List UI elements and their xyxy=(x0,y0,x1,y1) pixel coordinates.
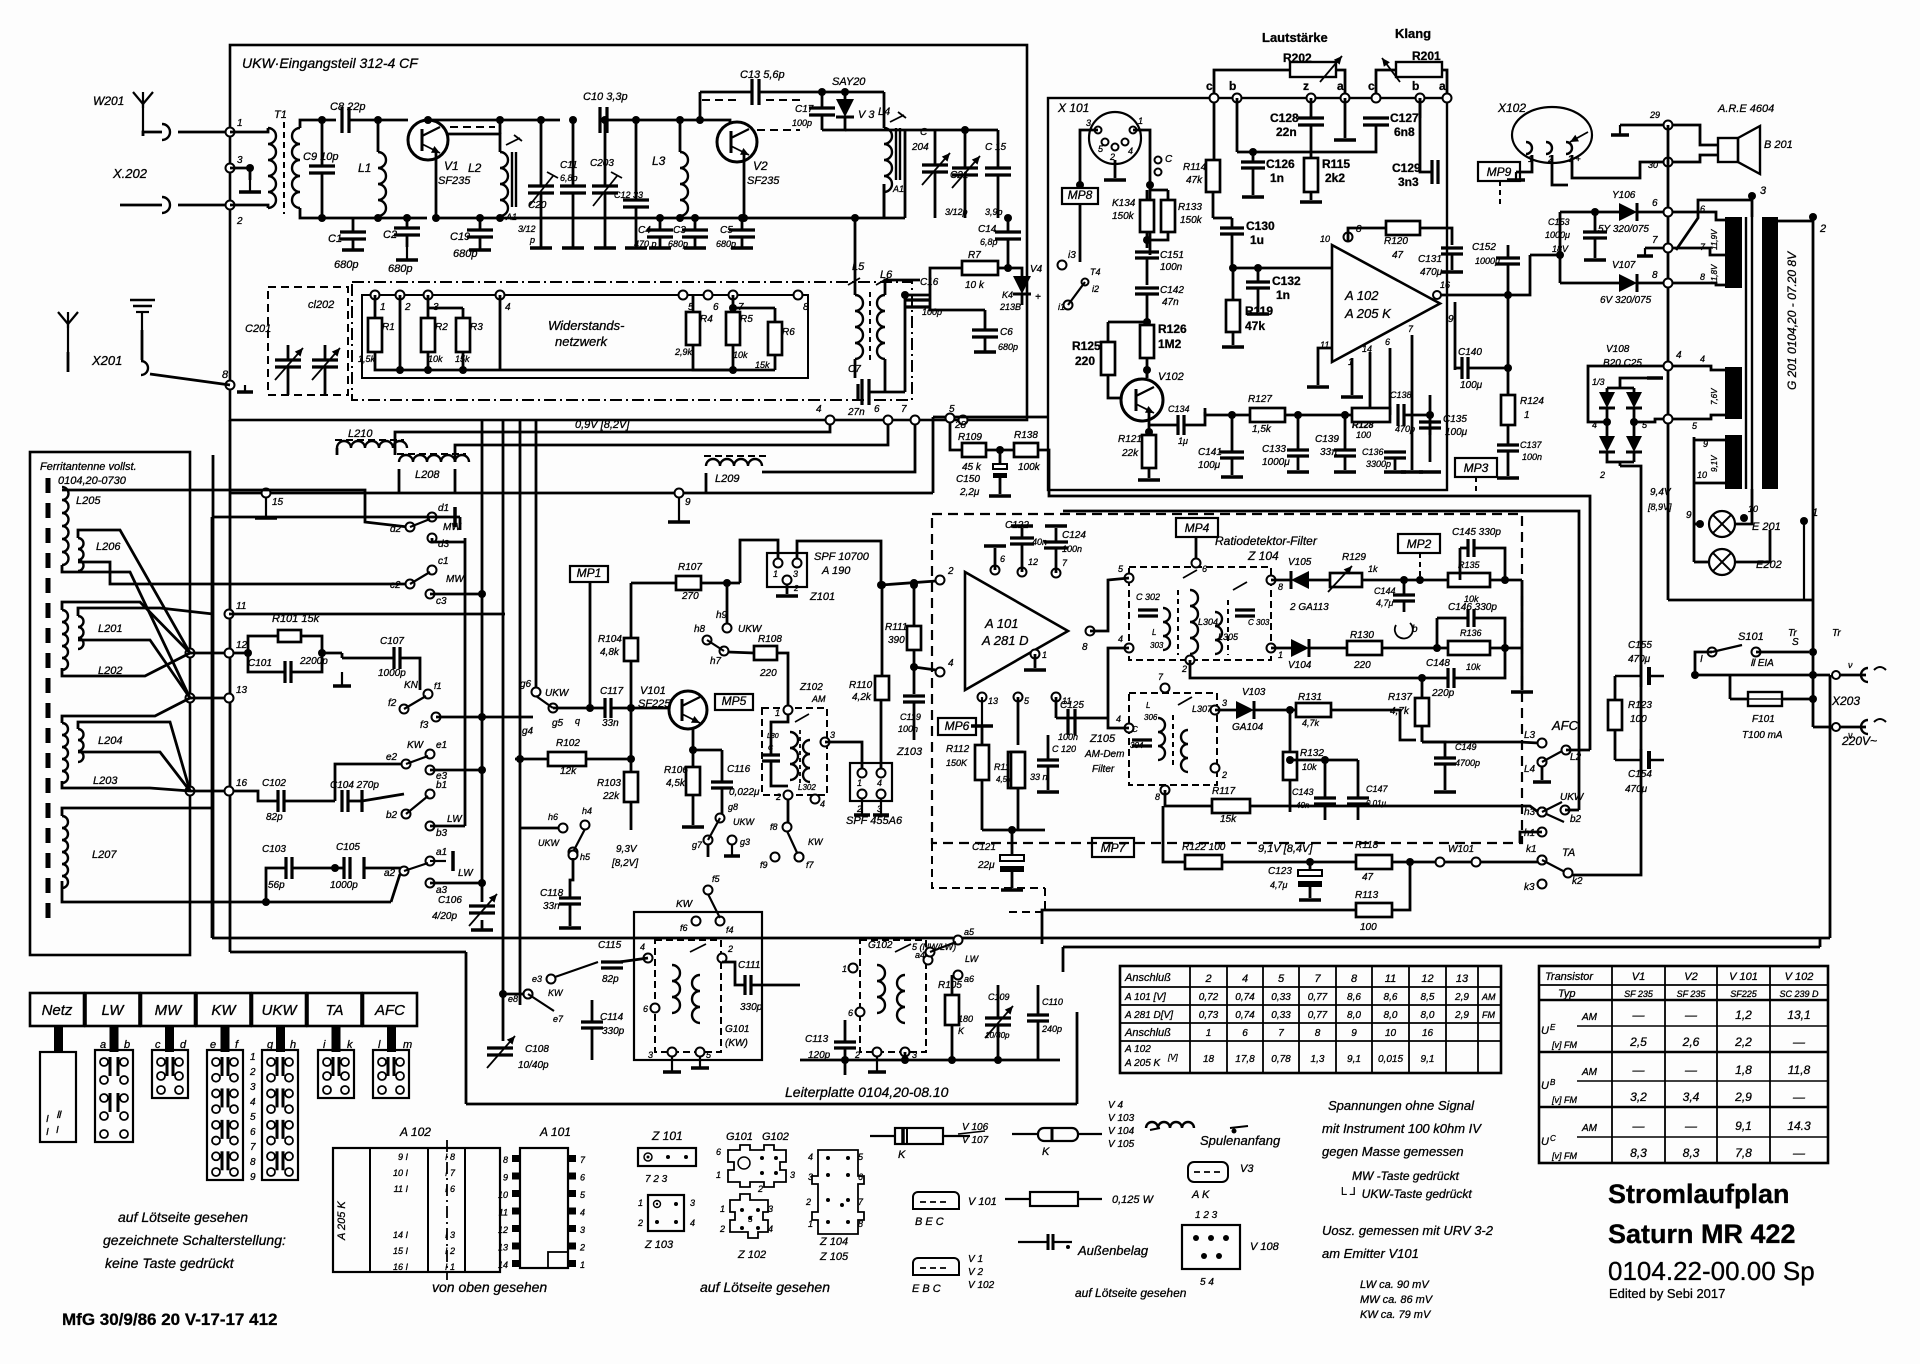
wire xyxy=(1007,239,1010,258)
svg-text:h1: h1 xyxy=(1524,828,1535,839)
wire xyxy=(1411,335,1414,470)
svg-text:f9: f9 xyxy=(760,860,768,870)
svg-text:150k: 150k xyxy=(1180,215,1203,226)
svg-text:Anschluß: Anschluß xyxy=(1124,972,1171,984)
lbl a5 xyxy=(964,927,975,937)
label C146 330p xyxy=(1448,602,1497,613)
resistor R102 xyxy=(548,752,586,766)
svg-text:3,9p: 3,9p xyxy=(985,207,1003,217)
coil L301 xyxy=(790,732,798,780)
junction xyxy=(586,704,594,712)
value 240p xyxy=(1041,1024,1062,1034)
value 680p C19 xyxy=(453,248,477,260)
svg-text:15: 15 xyxy=(272,497,284,508)
label GA104 xyxy=(1232,722,1264,733)
junction xyxy=(1591,208,1599,216)
capacitor C141 xyxy=(1220,452,1244,458)
capacitor C145 xyxy=(1468,539,1474,557)
resistor R137 xyxy=(1415,698,1429,726)
svg-text:a: a xyxy=(1439,79,1446,93)
wire xyxy=(1694,561,1709,564)
wire xyxy=(1421,726,1424,742)
wire xyxy=(1146,372,1149,378)
svg-text:I: I xyxy=(1700,654,1703,665)
svg-text:a4: a4 xyxy=(915,950,925,960)
switch b2 xyxy=(402,796,429,819)
value 10k R135 xyxy=(1464,594,1479,604)
svg-text:L205: L205 xyxy=(76,495,101,507)
pin 13 xyxy=(236,685,248,696)
label V4 xyxy=(1030,264,1043,275)
junction xyxy=(878,581,886,589)
label V108 xyxy=(1606,344,1630,355)
resistor R113 xyxy=(1356,903,1392,917)
wire xyxy=(1309,647,1347,650)
ground R119 xyxy=(1222,345,1244,349)
svg-text:9,1V: 9,1V xyxy=(1710,455,1719,472)
label V105 xyxy=(1288,557,1312,568)
svg-text:g3: g3 xyxy=(740,837,750,847)
resistor R115 xyxy=(1304,158,1318,192)
svg-text:0,74: 0,74 xyxy=(1235,992,1255,1003)
value 4.8k xyxy=(600,647,620,658)
value 180k xyxy=(958,1014,973,1024)
z103 pin2 xyxy=(637,1218,643,1228)
a101 rpin3 xyxy=(568,1225,576,1232)
svg-text:1000μ: 1000μ xyxy=(1545,230,1570,240)
Z102 dashed box xyxy=(762,708,827,795)
svg-text:AFC: AFC xyxy=(1551,718,1579,733)
svg-text:C139: C139 xyxy=(1315,434,1339,445)
value 1u C134 xyxy=(1178,436,1188,446)
wire xyxy=(391,874,400,902)
node z103-1 xyxy=(858,769,867,778)
svg-text:2,6: 2,6 xyxy=(1682,1035,1700,1049)
wire xyxy=(1594,212,1597,232)
a101 lpin9 xyxy=(512,1173,520,1180)
svg-text:L: L xyxy=(1152,628,1156,637)
svg-text:3n3: 3n3 xyxy=(1398,175,1419,189)
wire xyxy=(722,962,745,985)
value 1000u C133 xyxy=(1262,457,1290,468)
v108 pins123 xyxy=(1195,1210,1218,1221)
label C130 xyxy=(1246,219,1275,233)
svg-text:1n: 1n xyxy=(1276,288,1290,302)
wire xyxy=(1645,247,1664,250)
label W201 xyxy=(93,94,124,108)
svg-text:1,5k: 1,5k xyxy=(358,354,376,364)
trim G102 xyxy=(895,944,911,952)
svg-text:auf Lötseite gesehen: auf Lötseite gesehen xyxy=(1075,1286,1187,1300)
note mw xyxy=(1360,1294,1434,1306)
label C9 10p xyxy=(303,151,338,163)
svg-text:f8: f8 xyxy=(770,822,778,832)
capacitor C2 xyxy=(394,228,420,235)
value 15k R3 xyxy=(455,354,470,364)
svg-text:2: 2 xyxy=(1204,973,1211,985)
z102 pin5 xyxy=(748,1215,753,1224)
Z102 package xyxy=(730,1194,768,1238)
wire xyxy=(1730,698,1748,701)
z101 pin3 xyxy=(793,569,798,579)
junction xyxy=(1809,213,1817,221)
node t4 xyxy=(1664,362,1673,371)
anschluss hdr 6 xyxy=(1421,973,1433,985)
capacitor C102 xyxy=(278,790,284,812)
resistor R6 xyxy=(768,322,782,355)
svg-text:g4: g4 xyxy=(522,726,534,737)
svg-text:5: 5 xyxy=(748,1215,753,1224)
connector X203b xyxy=(1861,720,1868,734)
svg-text:C101: C101 xyxy=(248,658,272,669)
label L207 xyxy=(92,849,117,861)
node a101-4 xyxy=(936,668,945,677)
svg-text:6: 6 xyxy=(1385,337,1390,347)
label C13 5,6p xyxy=(740,69,785,81)
svg-text:6: 6 xyxy=(1000,554,1005,564)
wire xyxy=(1560,211,1619,214)
value 33n C118 xyxy=(543,901,560,912)
connector arc X202-1 xyxy=(162,124,170,140)
g101 pin3 xyxy=(648,1050,653,1060)
value 1000u C152 xyxy=(1475,256,1500,266)
svg-text:SC 239 D: SC 239 D xyxy=(1779,989,1819,999)
node g102-2 xyxy=(873,1048,882,1057)
svg-text:4: 4 xyxy=(690,1218,695,1228)
a102 pin10 xyxy=(1320,234,1330,244)
junction xyxy=(374,214,382,222)
capacitor C126 xyxy=(1241,162,1265,168)
wire xyxy=(984,310,987,330)
svg-text:V101: V101 xyxy=(640,685,666,697)
t lbl 5 xyxy=(1692,421,1698,431)
legend V106/107b xyxy=(962,1135,989,1146)
node g101-3 xyxy=(668,1048,677,1057)
wire xyxy=(427,352,430,370)
svg-text:I: I xyxy=(46,1114,49,1125)
a101 val 7 xyxy=(1454,992,1469,1003)
svg-text:3/12: 3/12 xyxy=(518,224,536,234)
wire xyxy=(1565,809,1579,812)
value 2.9k xyxy=(674,347,693,357)
tt AM1 xyxy=(1581,1012,1598,1023)
UKW-Eingangsteil enclosure box xyxy=(230,45,1027,420)
wire xyxy=(885,280,920,295)
svg-text:C11: C11 xyxy=(560,160,578,171)
svg-text:b: b xyxy=(1412,79,1419,93)
wire xyxy=(321,173,324,218)
svg-text:R2: R2 xyxy=(435,322,448,333)
wire xyxy=(1459,548,1462,580)
wire xyxy=(1034,654,1037,668)
legend diode K1 xyxy=(870,1128,970,1144)
value 680p C6 xyxy=(998,342,1018,352)
wire xyxy=(1455,648,1505,678)
svg-text:I 8: I 8 xyxy=(445,1152,455,1162)
wire xyxy=(570,858,573,898)
svg-text:V2: V2 xyxy=(753,159,768,173)
svg-text:C131: C131 xyxy=(1418,254,1442,265)
wire xyxy=(1252,168,1255,195)
label C304b xyxy=(1130,741,1144,750)
value 33n C120 xyxy=(1030,772,1048,782)
svg-text:Filter: Filter xyxy=(1092,764,1115,775)
UKW connector block xyxy=(262,1050,298,1180)
connector arc X201 xyxy=(141,361,148,375)
svg-text:L307: L307 xyxy=(1192,704,1213,714)
value 27n xyxy=(847,407,865,418)
node W101b xyxy=(1472,858,1481,867)
resistor R110 xyxy=(875,676,889,700)
label AFC xyxy=(1551,718,1579,733)
z104 pin6 xyxy=(858,1172,863,1182)
label L301 xyxy=(767,733,779,740)
tt data 1101 1 xyxy=(1683,1090,1700,1104)
label C125 xyxy=(1060,700,1084,711)
node g6 xyxy=(532,688,541,697)
svg-text:390: 390 xyxy=(888,635,905,646)
note mw-taste xyxy=(1352,1169,1460,1183)
wire xyxy=(1063,511,1579,810)
button stub UKW xyxy=(276,1026,285,1052)
wire xyxy=(999,478,1002,494)
wire xyxy=(430,593,482,596)
resistor R131 xyxy=(1296,703,1331,717)
ground R106 xyxy=(682,825,704,829)
label K4 xyxy=(1002,290,1013,300)
wire xyxy=(1614,676,1617,700)
value 150k xyxy=(946,758,968,768)
svg-text:AM: AM xyxy=(811,694,826,704)
svg-text:1μ: 1μ xyxy=(1178,436,1188,446)
lbl g4 xyxy=(522,726,534,737)
label L4 xyxy=(878,106,890,118)
svg-text:10k: 10k xyxy=(733,350,748,360)
svg-text:C135: C135 xyxy=(1443,414,1467,425)
transformer secondary bar 9.1V xyxy=(1725,435,1742,489)
core L5L6 xyxy=(869,292,871,362)
svg-text:0,33: 0,33 xyxy=(1271,992,1291,1003)
digit 8 xyxy=(250,1157,256,1168)
wire xyxy=(1436,618,1439,648)
ground a102-1 xyxy=(1341,395,1363,399)
pin netz 8 xyxy=(803,302,809,313)
anschluss hdr 5 xyxy=(1385,973,1396,985)
wire xyxy=(1454,302,1457,370)
tt rowsub U xyxy=(1551,1040,1577,1050)
svg-text:6: 6 xyxy=(250,1127,256,1138)
svg-text:R127: R127 xyxy=(1248,394,1272,405)
label Z105 pkg xyxy=(819,1251,849,1263)
svg-text:B E C: B E C xyxy=(915,1216,944,1228)
label C147 xyxy=(1366,784,1389,794)
label A102 xyxy=(1344,288,1379,303)
svg-text:2,2μ: 2,2μ xyxy=(959,487,980,498)
X101 connector xyxy=(1089,112,1141,164)
wire xyxy=(364,868,404,871)
wire xyxy=(553,707,605,710)
wire xyxy=(707,844,710,857)
lbl c3 xyxy=(436,596,447,607)
title saturn xyxy=(1608,1219,1796,1249)
trim z102 xyxy=(795,714,809,722)
node netz 4 xyxy=(496,291,505,300)
svg-text:8,6: 8,6 xyxy=(1347,992,1361,1003)
wire xyxy=(1421,726,1424,742)
label Filter xyxy=(1092,764,1115,775)
a101 rpin5 xyxy=(568,1190,576,1197)
node 28 xyxy=(946,414,955,423)
svg-text:1: 1 xyxy=(1524,410,1530,421)
node a102-16 xyxy=(1433,291,1441,299)
a102pkg l9 xyxy=(398,1152,409,1162)
svg-text:4,7k: 4,7k xyxy=(1302,718,1320,728)
ground 15 xyxy=(255,497,277,518)
svg-text:15 I: 15 I xyxy=(393,1246,409,1256)
svg-text:SAY20: SAY20 xyxy=(832,76,866,88)
lbl h3 xyxy=(1524,807,1536,818)
svg-text:8,6: 8,6 xyxy=(1384,992,1398,1003)
ground t7 xyxy=(1637,248,1653,256)
G101 package xyxy=(728,1145,786,1187)
label C12 33 xyxy=(614,190,643,200)
bus node c1214 xyxy=(1210,94,1219,103)
wire xyxy=(394,448,397,455)
label A101 xyxy=(984,616,1019,631)
button label Netz xyxy=(42,1002,73,1019)
tt hdr V 102 xyxy=(1785,971,1814,983)
capacitor C124 xyxy=(1044,542,1068,548)
ground audio 1345 xyxy=(1334,470,1356,474)
wire xyxy=(1351,358,1354,395)
node L4 xyxy=(1538,758,1547,767)
cap Cl202 var xyxy=(312,348,340,380)
lbl b3 xyxy=(436,828,448,839)
svg-text:C127: C127 xyxy=(1390,111,1419,125)
legend coil xyxy=(1146,1122,1248,1134)
wire xyxy=(430,825,465,828)
legend V102lbl xyxy=(968,1280,995,1291)
inductor L207 xyxy=(62,816,68,888)
wire xyxy=(62,808,213,816)
coil L302 xyxy=(803,740,810,782)
value 680p xyxy=(334,259,358,271)
note lw xyxy=(1360,1279,1430,1291)
svg-text:c: c xyxy=(1206,79,1213,93)
value 470p C138 xyxy=(1395,424,1415,434)
wire xyxy=(733,307,775,310)
label V102 xyxy=(1158,371,1184,383)
lbl c1 xyxy=(438,556,449,567)
wire xyxy=(612,707,669,710)
bridge diode 3 xyxy=(1599,436,1615,452)
node 5 ukw-bottom xyxy=(959,416,968,425)
a101 lpin14 xyxy=(512,1260,520,1267)
svg-text:3: 3 xyxy=(808,1172,813,1182)
wire xyxy=(520,827,559,830)
junction xyxy=(331,864,339,872)
label R128 xyxy=(1352,420,1374,430)
node a101-2 xyxy=(936,576,945,585)
value 330p C114 xyxy=(602,1026,625,1037)
label 1/3 xyxy=(1592,377,1605,387)
svg-text:K: K xyxy=(1042,1146,1050,1158)
ground C118 xyxy=(559,926,581,930)
svg-text:E: E xyxy=(1550,1023,1556,1032)
resistor R2 xyxy=(421,318,435,352)
svg-text:33π: 33π xyxy=(1320,447,1338,458)
svg-text:GA104: GA104 xyxy=(1232,722,1264,733)
svg-text:1,5k: 1,5k xyxy=(1252,424,1272,435)
note kw xyxy=(1360,1309,1432,1321)
svg-text:C128: C128 xyxy=(1270,111,1299,125)
legend V104 xyxy=(1108,1126,1135,1137)
wire xyxy=(913,583,916,626)
node x101C2 xyxy=(1155,169,1162,176)
capacitor C111 xyxy=(745,975,751,995)
label C145 330p xyxy=(1452,527,1501,538)
node i3 xyxy=(1058,261,1067,270)
svg-text:4: 4 xyxy=(505,302,511,313)
resistor R111 xyxy=(907,626,921,650)
note uosz2 xyxy=(1322,1246,1419,1261)
core z104b xyxy=(1227,600,1229,655)
svg-text:R128: R128 xyxy=(1352,420,1374,430)
wire xyxy=(883,92,886,128)
switch a2 xyxy=(400,863,429,876)
wire xyxy=(1480,861,1538,864)
wire xyxy=(721,750,724,782)
ground L4b xyxy=(1533,780,1551,784)
wire xyxy=(1619,462,1622,466)
wire xyxy=(1289,710,1292,752)
wire xyxy=(1695,674,1830,677)
label Ratiodetektor xyxy=(1215,534,1318,548)
button stub Netz xyxy=(54,1026,63,1052)
label R123 xyxy=(1628,700,1652,711)
junction xyxy=(1004,264,1012,272)
lbl KN xyxy=(404,680,419,691)
lbl g3 xyxy=(740,837,750,847)
node t7 xyxy=(1664,244,1673,253)
resistor R4 xyxy=(686,312,700,345)
cap C106 var xyxy=(469,894,497,926)
ground C2 xyxy=(396,247,418,260)
wire xyxy=(78,640,190,698)
wire xyxy=(997,175,1000,218)
wire xyxy=(1812,217,1815,727)
a281 val 1 xyxy=(1235,1010,1255,1021)
diode V105 xyxy=(1291,571,1309,589)
value 4.7u C123 xyxy=(1270,880,1288,890)
wire c152top xyxy=(1507,245,1510,258)
wire xyxy=(692,729,695,767)
svg-text:2200p: 2200p xyxy=(299,656,328,667)
svg-text:28: 28 xyxy=(954,420,967,431)
label L303b xyxy=(1150,641,1164,650)
wire xyxy=(981,780,984,830)
svg-text:U: U xyxy=(1541,1025,1549,1037)
junction xyxy=(601,116,609,124)
svg-text:C155: C155 xyxy=(1628,640,1652,651)
junction xyxy=(961,126,969,134)
resistor R122 xyxy=(1185,855,1222,869)
svg-text:C150: C150 xyxy=(956,474,980,485)
a102pkg l14 xyxy=(393,1230,409,1240)
svg-text:UKW: UKW xyxy=(262,1002,299,1019)
t lbl 11.9V xyxy=(1710,229,1719,250)
wire xyxy=(287,345,290,360)
